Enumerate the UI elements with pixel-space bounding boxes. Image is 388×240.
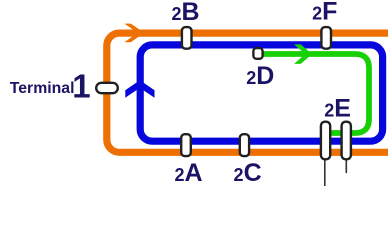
station 2D <box>253 48 262 59</box>
station 2E right platform <box>342 122 351 160</box>
green line wire <box>258 54 369 133</box>
station Terminal 1 <box>96 83 118 93</box>
svg-text:1: 1 <box>72 68 90 105</box>
orange outer loop wire <box>107 33 388 152</box>
station 2A <box>181 134 191 156</box>
leader line below station 2E right <box>345 160 347 173</box>
svg-text:2F: 2F <box>312 0 337 26</box>
orange direction arrow <box>124 24 144 43</box>
blue inner loop wire <box>140 45 382 141</box>
leader line below station 2E left <box>324 160 326 186</box>
station 2F <box>321 27 331 49</box>
svg-text:Terminal: Terminal <box>10 80 75 97</box>
station 2B <box>182 27 192 49</box>
green direction arrow <box>294 44 312 64</box>
svg-text:2B: 2B <box>171 0 199 26</box>
station 2E left platform <box>321 122 330 160</box>
blue direction arrow <box>125 80 154 97</box>
station 2C <box>240 134 249 156</box>
